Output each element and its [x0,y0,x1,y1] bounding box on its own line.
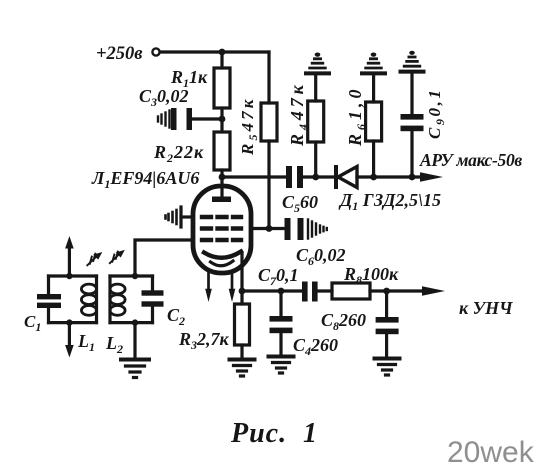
antenna arrow down [65,323,74,358]
ground below C4 [269,357,294,374]
wire: C2 branch bottom [151,307,154,323]
chassis symbol right of C6 [308,220,327,239]
svg-text:Д1 ГЗД2,5\15: Д1 ГЗД2,5\15 [338,190,441,213]
wire: cathode lead [240,254,243,291]
svg-text:C70,1: C70,1 [258,265,299,288]
tank 2 top rail [110,274,153,277]
antenna arrow up [65,236,74,276]
svg-text:C2: C2 [167,305,185,328]
node: tank2 bottom [132,319,138,325]
resistor R3 [235,304,250,345]
wire: g3 to chassis [181,215,193,218]
wire: cathode row to C7 [242,289,302,292]
wire: C9 bottom [410,131,413,177]
node: C8 junction [383,288,390,295]
wire: C1 branch top [47,276,50,294]
wire: R2 bottom to anode [220,170,223,197]
wire: rail corner down to R5 [267,52,270,103]
ground below C8 [375,359,400,376]
capacitor C3 [171,108,192,130]
tank 2 bottom rail [110,321,153,324]
tube anode plate [212,197,231,203]
node: tank1 bottom [66,319,72,325]
wire: +250v rail [160,50,269,53]
wire: diode to AGC arrow [357,175,421,178]
node: C9 junction [409,174,416,181]
wire: C4 bottom [279,333,282,355]
node: tank1 top [66,273,72,279]
wire: R1 top lead [220,52,223,68]
grid g1 (dashed) [202,238,241,242]
heater lead arrow left [205,272,212,302]
svg-text:1: 1 [303,418,317,449]
tube U1 envelope [193,186,251,273]
svg-text:C560: C560 [282,192,318,215]
output arrow to AF amp [422,286,445,295]
svg-text:C60,02: C60,02 [296,245,346,268]
wire: L2 branch [108,276,111,323]
svg-text:C4260: C4260 [293,335,338,358]
chassis symbol at g3 [166,207,182,227]
inductor L1 [81,284,96,315]
capacitor C5 [286,166,303,188]
node: C3/R1/R2 junction [219,116,226,123]
wire: R6 bottom [372,141,375,177]
capacitor C8 [376,317,399,334]
svg-text:R32,7к: R32,7к [178,329,230,352]
svg-text:к УНЧ: к УНЧ [459,298,513,318]
AGC output arrow [420,172,443,181]
node: R4 junction [312,174,319,181]
svg-text:L2: L2 [105,333,123,356]
wire: g1 to tank [135,240,193,276]
capacitor C7 [302,282,318,302]
heater lead arrow right [229,272,236,302]
resistor R8 [332,283,370,299]
wire: L1 branch [95,276,98,323]
capacitor C9 [401,114,424,131]
ground below L2 [121,360,149,378]
wire: AGC line anode to C5 [222,175,286,178]
svg-text:R447к: R447к [287,81,310,147]
wire: R5 bottom to g2 node [267,141,270,229]
resistor R1 [214,68,230,108]
chassis symbol left of C3 [158,111,170,128]
grid g2 (dashed) [202,226,241,230]
node: rail/R1 junction [219,49,226,56]
chassis symbol above R4 [306,53,329,74]
resistor R6 [366,102,382,141]
wire: C8 bottom [385,334,388,357]
node: cathode junction [239,288,246,295]
wire: chassis to C9 [410,74,413,114]
wire: C4 top [279,291,282,316]
svg-text:20wek: 20wek [447,436,535,469]
svg-text:АРУ макс-50в: АРУ макс-50в [419,150,522,170]
+250v supply terminal [152,48,159,55]
node: anode junction [219,174,226,181]
svg-text:C90,1: C90,1 [425,87,447,139]
resistor R5 [261,103,277,141]
ground below R3 [230,360,255,377]
svg-text:R222к: R222к [153,142,204,165]
capacitor C1 [37,294,61,308]
wire: C5 to diode [303,175,334,178]
wire: tank2 to ground [133,323,136,358]
tuning arrow L1 [87,252,102,265]
capacitor C4 [270,316,293,333]
svg-text:C30,02: C30,02 [139,86,189,109]
wire: C2 branch top [151,276,154,290]
wire: R3 top [240,291,243,304]
node: R6 junction [370,174,377,181]
capacitor C2 [142,290,164,306]
tank 1 top rail [49,274,97,277]
tank 1 bottom rail [49,321,97,324]
node: g2/R5/C6 junction [266,225,273,232]
diode D1 [336,167,357,188]
node: C4 junction [278,288,285,295]
svg-text:C8260: C8260 [321,310,366,333]
svg-text:C1: C1 [24,312,41,334]
wire: chassis to R6 [372,76,375,103]
svg-text:R547к: R547к [238,97,260,156]
svg-text:R8100к: R8100к [343,264,399,287]
tuning arrow L2 [110,250,125,263]
tube heater arc [211,261,234,266]
wire: R3 bottom [240,345,243,358]
resistor R2 [214,132,230,170]
resistor R4 [308,101,324,142]
wire: C7 to R8 [318,289,332,292]
svg-text:L1: L1 [77,331,95,354]
wire: chassis to R4 [314,76,317,102]
tube cathode arc [204,252,241,258]
chassis symbol above R6 [362,53,385,74]
grid g3 (dashed) [202,215,241,219]
wire: R4 bottom [314,142,317,177]
wire: g2 to bypass node [251,227,284,230]
chassis symbol above C9 [401,51,424,72]
capacitor C6 [285,218,304,240]
wire: R1-R2 link [220,108,223,132]
inductor L2 [110,284,125,315]
node: tank2 top / grid wire [132,273,138,279]
svg-text:Л1EF94|6AU6: Л1EF94|6AU6 [91,168,199,191]
wire: C1 branch bottom [47,308,50,323]
svg-text:R61,0: R61,0 [345,85,368,147]
svg-text:Рис.: Рис. [230,418,287,449]
wire: R8 to output [370,289,423,292]
wire: C8 top [385,291,388,317]
svg-text:+250в: +250в [96,44,143,64]
wire: C3 right lead [193,117,222,120]
